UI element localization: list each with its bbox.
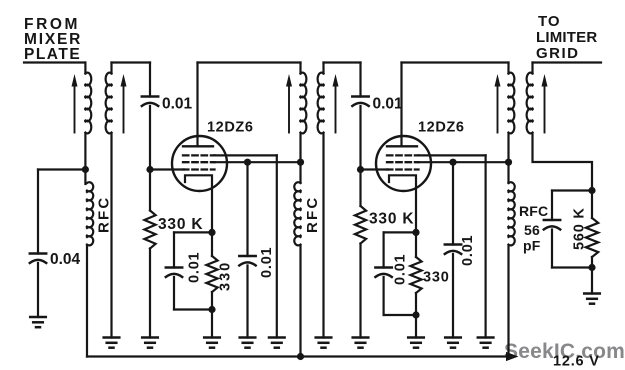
svg-text:330: 330 xyxy=(423,270,450,286)
svg-text:12.6 V: 12.6 V xyxy=(553,354,600,370)
svg-text:560 K: 560 K xyxy=(572,207,588,250)
svg-text:LIMITER: LIMITER xyxy=(536,29,597,46)
svg-text:RFC: RFC xyxy=(96,196,113,233)
svg-text:TO: TO xyxy=(538,13,561,30)
svg-text:0.01: 0.01 xyxy=(393,254,409,285)
svg-text:56: 56 xyxy=(524,222,540,238)
svg-text:0.01: 0.01 xyxy=(373,96,404,113)
svg-text:0.01: 0.01 xyxy=(162,96,193,113)
svg-text:0.01: 0.01 xyxy=(187,252,203,283)
svg-text:330 K: 330 K xyxy=(369,211,414,228)
svg-text:PLATE: PLATE xyxy=(24,46,81,63)
svg-text:RFC: RFC xyxy=(519,203,548,219)
svg-text:0.04: 0.04 xyxy=(50,251,81,268)
svg-text:12DZ6: 12DZ6 xyxy=(207,120,254,136)
svg-text:330: 330 xyxy=(218,261,234,291)
svg-text:GRID: GRID xyxy=(536,45,580,62)
svg-text:0.01: 0.01 xyxy=(460,235,476,266)
svg-text:0.01: 0.01 xyxy=(259,247,275,278)
svg-text:12DZ6: 12DZ6 xyxy=(418,120,465,136)
svg-text:330 K: 330 K xyxy=(158,216,203,233)
svg-text:pF: pF xyxy=(523,238,541,254)
svg-text:RFC: RFC xyxy=(304,196,321,233)
